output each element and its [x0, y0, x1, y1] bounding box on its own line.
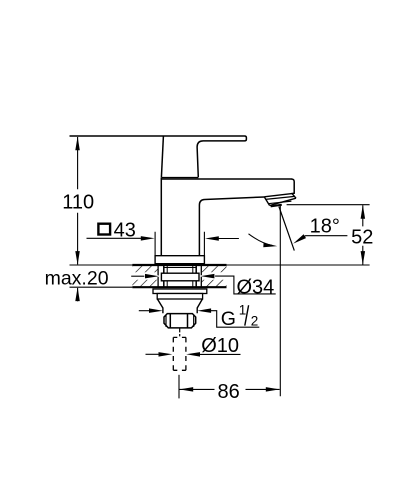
svg-text:110: 110	[62, 192, 94, 214]
svg-text:Ø10: Ø10	[201, 335, 239, 357]
svg-text:52: 52	[351, 226, 373, 248]
svg-text:2: 2	[251, 314, 259, 329]
svg-text:G: G	[221, 308, 236, 330]
svg-text:86: 86	[217, 381, 239, 403]
svg-text:Ø34: Ø34	[237, 276, 275, 298]
svg-text:1: 1	[239, 302, 247, 317]
svg-text:max.20: max.20	[45, 267, 109, 289]
svg-text:18°: 18°	[310, 216, 340, 238]
